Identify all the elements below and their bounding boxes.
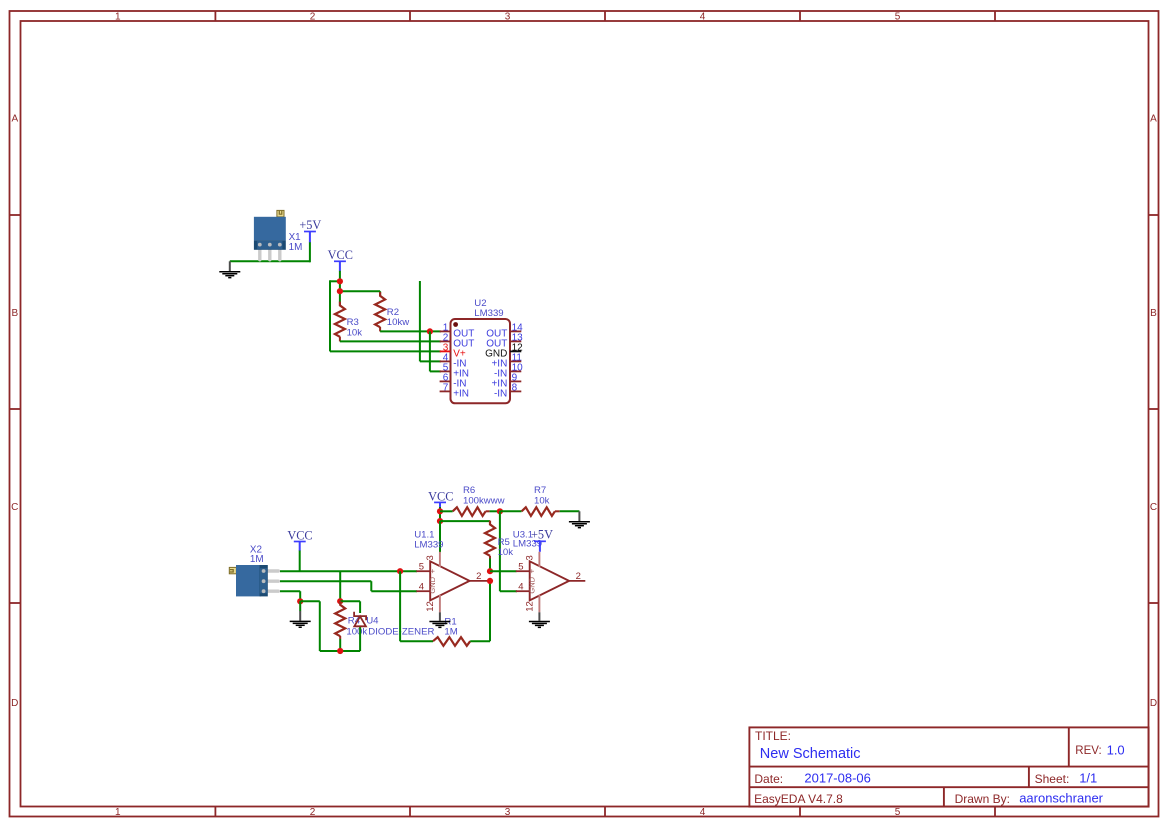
op-amp U3.1 triangle (530, 561, 569, 600)
label R6 (463, 485, 475, 496)
svg-text:1: 1 (115, 807, 121, 818)
svg-text:GND: GND (528, 576, 537, 593)
svg-text:1M: 1M (289, 242, 303, 253)
U2 pin 5 stub (440, 370, 451, 372)
svg-text:aaronschraner: aaronschraner (1019, 791, 1103, 806)
wire VCC (X2) stem (299, 551, 301, 572)
ground (X1) (219, 261, 240, 277)
U2 pin name -IN (453, 379, 466, 390)
label U1.1 value LM339 (414, 540, 443, 551)
label U3.1 (513, 529, 533, 540)
label U4 (366, 616, 379, 627)
label U4 value DIODE-ZENER (368, 627, 434, 638)
svg-text:+5V: +5V (299, 218, 321, 232)
svg-text:10k: 10k (534, 495, 550, 506)
title block Sheet value (1079, 771, 1097, 786)
U2 pin number 2 (443, 332, 449, 343)
svg-text:3: 3 (425, 555, 436, 560)
svg-text:2: 2 (310, 807, 316, 818)
svg-text:GND: GND (428, 576, 437, 593)
svg-text:5: 5 (518, 562, 523, 573)
title block REV label (1075, 745, 1101, 757)
U2 pin number 13 (512, 332, 524, 343)
wire pin1 node to pin5 (430, 331, 441, 371)
border column numbers (115, 12, 901, 819)
U1.1 pin 4 stub (416, 590, 430, 592)
label U2 value LM339 (474, 308, 503, 319)
title block REV value (1107, 743, 1125, 758)
svg-text:D: D (11, 698, 18, 709)
svg-text:2: 2 (310, 12, 316, 23)
svg-text:+: + (528, 569, 537, 574)
power flag VCC (R6) (428, 489, 453, 507)
title block frame (749, 727, 1148, 806)
U3.1 internal GND marking (528, 569, 537, 594)
resistor R3 (335, 302, 345, 342)
svg-text:1: 1 (115, 12, 121, 23)
U2 pin name -IN (494, 369, 507, 380)
svg-text:5: 5 (895, 12, 901, 23)
power flag +5V (299, 218, 321, 242)
svg-text:EasyEDA V4.7.8: EasyEDA V4.7.8 (754, 792, 843, 806)
svg-text:2017-08-06: 2017-08-06 (804, 771, 871, 786)
title block title text (760, 746, 861, 762)
svg-text:B: B (11, 308, 18, 319)
power flag +5V (U3.1) (531, 528, 553, 552)
svg-text:VCC: VCC (328, 248, 353, 262)
label R5 (498, 537, 510, 548)
U1.1 pin number 2 (476, 571, 481, 582)
junction (VCC/V+) (337, 278, 343, 284)
U2 pin 9 stub (510, 380, 521, 382)
svg-text:2: 2 (476, 571, 481, 582)
label R3 value 10k (347, 327, 363, 338)
U2 pin name -IN (453, 359, 466, 370)
wire R2 to pin1 (380, 330, 441, 332)
svg-text:LM339: LM339 (474, 308, 503, 319)
svg-text:B: B (1150, 308, 1157, 319)
svg-text:U4: U4 (366, 616, 379, 627)
svg-text:10k: 10k (498, 547, 514, 558)
label U2 (474, 298, 486, 309)
U2 pin name +IN (491, 359, 507, 370)
U3.1 pin 4 stub (516, 590, 530, 592)
wire VCC to V+ (left drop) (330, 280, 441, 351)
junction (R6/R7) (497, 508, 503, 514)
op-amp U2 LM339 body (451, 319, 511, 403)
title block Drawn By value (1019, 791, 1103, 806)
U2 pin name OUT (453, 329, 474, 340)
U1.1 pin number 12 (425, 601, 436, 612)
wire R1 left drop (400, 571, 433, 641)
svg-text:+: + (428, 569, 437, 574)
label X2 value 1M (250, 554, 264, 565)
svg-text:C: C (1150, 502, 1157, 513)
U2 pin number 3 (443, 342, 449, 353)
label R3 (347, 317, 359, 328)
svg-text:1M: 1M (444, 627, 457, 638)
U3.1 pin 12 stub (538, 595, 540, 613)
trimmer X1 (254, 210, 286, 261)
svg-text:100k: 100k (346, 627, 367, 638)
svg-text:5: 5 (895, 807, 901, 818)
U2 pin name V+ (453, 349, 466, 360)
label X2 (250, 545, 262, 556)
U2 pin number 12 (512, 342, 524, 353)
svg-text:12: 12 (524, 601, 535, 612)
wire X1 bottom rail (230, 260, 310, 262)
U2 pin 1 stub (440, 330, 451, 332)
U2 pin number 7 (443, 382, 449, 393)
svg-text:+5V: +5V (531, 528, 553, 542)
U2 pin number 6 (443, 372, 449, 383)
svg-text:4: 4 (700, 12, 706, 23)
U2 pin number 9 (512, 372, 518, 383)
resistor R1 (433, 637, 470, 646)
svg-text:DIODE-ZENER: DIODE-ZENER (368, 627, 434, 638)
wire R4 top drop (339, 571, 341, 601)
junction (R4 bottom) (337, 648, 343, 654)
U3.1 pin number 12 (524, 601, 535, 612)
U2 pin name OUT (453, 339, 474, 350)
U3.1 pin number 5 (518, 562, 523, 573)
wire +5V riser (309, 242, 311, 263)
title block EasyEDA version (754, 792, 843, 806)
resistor R6 (440, 507, 500, 516)
U2 pin 14 stub (510, 330, 521, 332)
U2 pin name OUT (486, 339, 507, 350)
U2 pin 12 stub (510, 350, 521, 352)
resistor R7 (500, 507, 580, 516)
junction (X2 pin3 / ground) (297, 598, 303, 604)
U2 pin number 5 (443, 362, 449, 373)
label R1 (444, 617, 456, 628)
svg-text:VCC: VCC (428, 489, 453, 503)
wire VCC (R6) stem (439, 507, 441, 521)
svg-text:1.0: 1.0 (1107, 743, 1125, 758)
U1.1 pin 12 stub (439, 595, 441, 613)
junction (pin1 node) (427, 328, 433, 334)
junction (VCC/R6) (437, 508, 443, 514)
U3.1 pin 5 stub (516, 570, 530, 572)
svg-text:7: 7 (443, 382, 449, 393)
U2 pin 4 stub (440, 360, 451, 362)
U1.1 pin number 3 (425, 555, 436, 560)
junction (R4 top) (337, 598, 343, 604)
junction (U1.1 output) (487, 578, 493, 584)
U2 pin number 11 (512, 352, 523, 363)
svg-text:A: A (11, 114, 18, 125)
svg-text:5: 5 (419, 562, 424, 573)
svg-text:Sheet:: Sheet: (1035, 772, 1070, 786)
wire VCC stem (339, 271, 341, 303)
label R2 (387, 307, 399, 318)
op-amp U1.1 triangle (430, 561, 469, 600)
U2 pin name GND (485, 349, 507, 360)
svg-text:Drawn By:: Drawn By: (955, 792, 1010, 806)
U2 pin number 10 (512, 362, 524, 373)
power flag VCC (X2) (287, 528, 312, 551)
title block Date label (754, 772, 783, 786)
title block Sheet label (1035, 772, 1070, 786)
svg-text:12: 12 (425, 601, 436, 612)
diode-zener U4 (354, 601, 366, 651)
U1.1 pin 5 stub (416, 570, 430, 572)
U2 pin number 14 (512, 322, 524, 333)
power flag VCC (R3) (328, 248, 353, 271)
U3.1 pin 3 stub (538, 552, 540, 567)
ground (U3.1) (529, 612, 550, 627)
label U3.1 value LM339 (513, 539, 542, 550)
svg-text:4: 4 (419, 582, 424, 593)
wire dangling to pin4 (420, 281, 441, 361)
svg-text:1/1: 1/1 (1079, 771, 1097, 786)
title block Date value (804, 771, 871, 786)
U2 pin name -IN (494, 389, 507, 400)
U2 pin name +IN (453, 369, 469, 380)
svg-text:TITLE:: TITLE: (755, 729, 791, 743)
wire output node to U3.1 pin5 (490, 570, 517, 572)
svg-text:C: C (11, 502, 18, 513)
svg-text:2: 2 (576, 571, 581, 582)
label R4 (348, 616, 361, 627)
wire VCC to R2 (340, 290, 380, 292)
U2 pin number 8 (512, 382, 518, 393)
wire VCC to R5 (440, 520, 490, 522)
svg-text:REV:: REV: (1075, 745, 1101, 757)
svg-text:1M: 1M (250, 554, 264, 565)
U2 pin 10 stub (510, 370, 521, 372)
svg-text:New Schematic: New Schematic (760, 746, 861, 762)
U1.1 output pin 2 stub (470, 580, 490, 582)
U3.1 output pin 2 stub (569, 580, 585, 582)
wire VCC to U1.1 pin3 (439, 521, 441, 552)
U2 pin 8 stub (510, 390, 521, 392)
label R7 value 10k (534, 495, 550, 506)
ground (X2) (290, 601, 311, 627)
svg-text:3: 3 (505, 807, 511, 818)
U2 pin 13 stub (510, 340, 521, 342)
wire X2 pin1 rail (to U1.1 pin5) (280, 570, 417, 572)
resistor R4 (335, 601, 345, 651)
U2 pin 6 stub (440, 380, 451, 382)
U1.1 pin number 4 (419, 582, 424, 593)
svg-text:10kw: 10kw (387, 317, 409, 328)
U2 pin name +IN (453, 389, 469, 400)
U2 pin 7 stub (440, 390, 451, 392)
svg-text:+IN: +IN (453, 389, 469, 400)
U1.1 pin 3 stub (439, 552, 441, 567)
U2 pin name +IN (491, 379, 507, 390)
wire R3 to pin2 (340, 340, 441, 342)
svg-text:8: 8 (512, 382, 518, 393)
svg-text:-IN: -IN (494, 389, 507, 400)
label R6 value 100kwww (463, 495, 505, 506)
label R2 value 10kw (387, 317, 409, 328)
svg-text:100kwww: 100kwww (463, 495, 505, 506)
junction (R5/U3.1 pin5) (487, 568, 493, 574)
label X1 value 1M (289, 242, 303, 253)
wire ground node to bottom rail (300, 601, 360, 651)
svg-text:3: 3 (524, 555, 535, 560)
U2 pin 2 stub (440, 340, 451, 342)
ground (R7) (569, 511, 590, 527)
title block Drawn By label (955, 792, 1010, 806)
title block TITLE label (755, 729, 791, 743)
U2 pin number 1 (443, 322, 449, 333)
label U1.1 (414, 529, 434, 540)
svg-text:4: 4 (700, 807, 706, 818)
wire R6/R7 node to U3.1 pin4 (500, 511, 517, 591)
svg-text:4: 4 (518, 582, 523, 593)
label R1 value 1M (444, 627, 457, 638)
border row letters (11, 114, 1157, 710)
U3.1 pin number 3 (524, 555, 535, 560)
label R5 value 10k (498, 547, 514, 558)
trimmer X2 (229, 565, 280, 596)
label R4 value 100k (346, 627, 367, 638)
wire R4 node to U4 (340, 600, 360, 602)
svg-text:LM339: LM339 (414, 540, 443, 551)
U3.1 pin number 4 (518, 582, 523, 593)
wire R1 right to output node (470, 581, 490, 641)
svg-text:VCC: VCC (287, 528, 312, 542)
U1.1 pin number 5 (419, 562, 424, 573)
junction (VCC/R2/R3) (337, 288, 343, 294)
svg-text:3: 3 (505, 12, 511, 23)
U2 pin 11 stub (510, 360, 521, 362)
junction (VCC/R5) (437, 518, 443, 524)
wire X2 pin3 to ground (280, 591, 300, 601)
U2 pin 3 stub (440, 350, 451, 352)
U1.1 internal GND marking (428, 569, 437, 594)
svg-text:10k: 10k (347, 327, 363, 338)
ground (U1.1) (429, 612, 450, 627)
resistor R5 (485, 521, 495, 572)
label R7 (534, 485, 546, 496)
svg-text:A: A (1150, 114, 1157, 125)
svg-text:Date:: Date: (754, 772, 783, 786)
wire X2 pin2 to U1.1 pin4 (280, 581, 417, 591)
junction (X2 pin1 / R1) (397, 568, 403, 574)
resistor R2 (375, 291, 385, 331)
svg-text:D: D (1150, 698, 1157, 709)
U3.1 pin number 2 (576, 571, 581, 582)
U2 pin name OUT (486, 329, 507, 340)
label X1 (289, 232, 302, 243)
U2 pin number 4 (443, 352, 449, 363)
